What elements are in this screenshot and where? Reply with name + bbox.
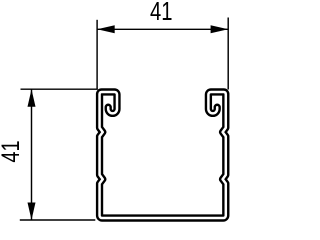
arrowhead right bbox=[211, 25, 229, 33]
profile sheet outline bbox=[100, 92, 226, 218]
white core of sheet bbox=[100, 92, 226, 218]
dimension line bbox=[97, 28, 228, 30]
extension line right bbox=[227, 18, 229, 90]
dimension line bbox=[31, 89, 33, 220]
extension line bottom bbox=[20, 219, 96, 221]
svg-text:41: 41 bbox=[150, 0, 172, 26]
dimension: top width 41 bbox=[97, 18, 228, 90]
dimension: left height 41 bbox=[20, 89, 98, 220]
svg-text:41: 41 bbox=[0, 140, 25, 162]
extension line left bbox=[96, 20, 98, 90]
arrowhead down bbox=[28, 203, 36, 221]
channel profile 41x41 cross-section (sheet drawn as centerline: thick black + white core) bbox=[100, 92, 226, 218]
arrowhead left bbox=[97, 25, 115, 33]
arrowhead up bbox=[28, 89, 36, 107]
extension line top bbox=[21, 88, 98, 90]
